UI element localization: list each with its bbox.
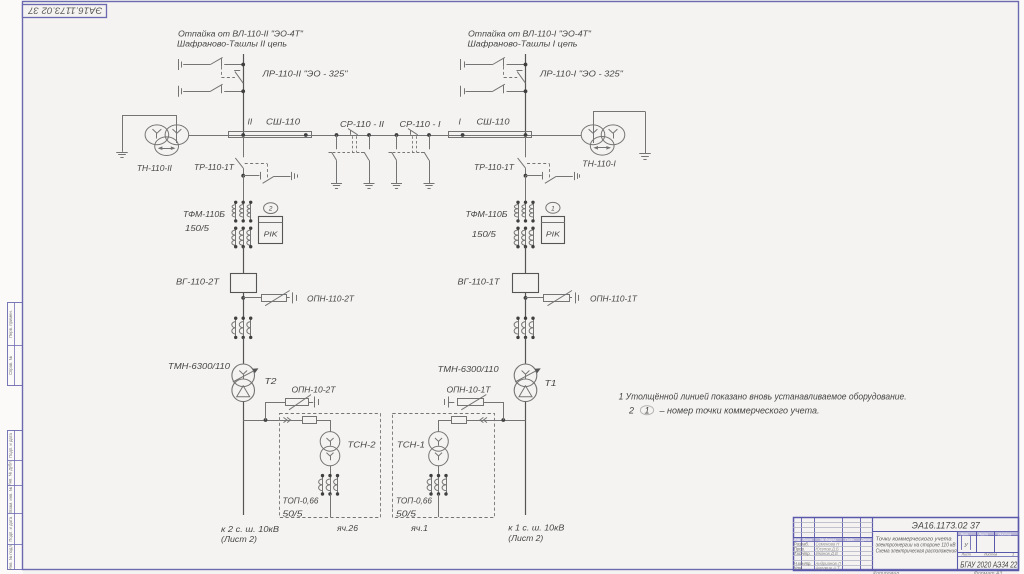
svg-text:Инв. № дубл.: Инв. № дубл.	[8, 460, 13, 486]
svg-text:Т.контр.: Т.контр.	[794, 551, 811, 556]
svg-text:Листов: Листов	[983, 553, 997, 557]
svg-text:1 Утолщённой линией показано: 1 Утолщённой линией показано вновь устан…	[619, 391, 907, 401]
svg-text:Листов: Листов	[997, 532, 1011, 536]
svg-text:Справ. №: Справ. №	[8, 356, 13, 376]
svg-text:PIK: PIK	[264, 230, 279, 239]
svg-text:ТОП-0,66: ТОП-0,66	[396, 496, 432, 506]
svg-text:к 2 с. ш. 10кВ: к 2 с. ш. 10кВ	[221, 524, 279, 534]
svg-text:1: 1	[1012, 553, 1014, 557]
svg-text:150/5: 150/5	[472, 229, 496, 239]
svg-text:яч.1: яч.1	[410, 523, 428, 533]
svg-text:Шафраново-Ташлы I цепь: Шафраново-Ташлы I цепь	[468, 39, 578, 48]
svg-text:Подп.: Подп.	[845, 538, 855, 542]
svg-text:Отпайка от ВЛ-110-I "ЭО-4Т": Отпайка от ВЛ-110-I "ЭО-4Т"	[468, 29, 592, 38]
svg-text:Иванов Д.В: Иванов Д.В	[816, 551, 839, 556]
svg-text:– номер точки коммерческого у: – номер точки коммерческого учета.	[658, 405, 819, 415]
svg-text:СР-110 - I: СР-110 - I	[400, 119, 442, 129]
svg-text:Дата: Дата	[860, 538, 870, 542]
svg-text:ТОП-0,66: ТОП-0,66	[283, 496, 319, 506]
svg-text:ТСН-2: ТСН-2	[348, 440, 376, 450]
svg-text:Лист: Лист	[961, 553, 971, 557]
svg-text:ТМН-6300/110: ТМН-6300/110	[438, 364, 499, 374]
svg-text:яч.26: яч.26	[336, 523, 358, 533]
svg-text:ОПН-10-1Т: ОПН-10-1Т	[447, 385, 492, 395]
svg-text:Схема электрическая расположен: Схема электрическая расположения	[876, 549, 957, 555]
svg-text:Лит.: Лит.	[960, 532, 969, 536]
svg-text:Утв.: Утв.	[794, 566, 804, 571]
svg-text:ЭА16.1173.02 37: ЭА16.1173.02 37	[27, 6, 102, 16]
svg-text:ВГ-110-2Т: ВГ-110-2Т	[176, 277, 220, 287]
svg-text:1: 1	[551, 205, 555, 212]
svg-text:(Лист 2): (Лист 2)	[508, 533, 543, 543]
svg-text:ВГ-110-1Т: ВГ-110-1Т	[458, 277, 501, 287]
svg-text:1: 1	[644, 405, 649, 415]
svg-text:II: II	[248, 117, 253, 127]
svg-text:Т2: Т2	[265, 376, 277, 386]
svg-text:ТМН-6300/110: ТМН-6300/110	[168, 361, 230, 371]
svg-text:Инв. № подл.: Инв. № подл.	[8, 544, 13, 570]
svg-text:ОПН-110-2Т: ОПН-110-2Т	[307, 294, 355, 304]
svg-text:ЭА16.1173.02 37: ЭА16.1173.02 37	[912, 520, 981, 530]
svg-text:ЛР-110-II "ЭО - 325": ЛР-110-II "ЭО - 325"	[261, 69, 348, 79]
svg-text:150/5: 150/5	[185, 223, 209, 233]
svg-text:ЛР-110-I "ЭО - 325": ЛР-110-I "ЭО - 325"	[539, 69, 624, 79]
svg-text:Т1: Т1	[545, 378, 557, 388]
svg-text:PIK: PIK	[546, 230, 561, 239]
svg-text:2: 2	[628, 405, 634, 415]
svg-text:ТФМ-110Б: ТФМ-110Б	[466, 209, 508, 219]
svg-text:ТР-110-1Т: ТР-110-1Т	[194, 162, 235, 172]
svg-text:Перв. примен.: Перв. примен.	[8, 310, 13, 338]
svg-text:ТФМ-110Б: ТФМ-110Б	[183, 209, 225, 219]
svg-text:БГАУ 2020 АЭ34 22: БГАУ 2020 АЭ34 22	[960, 560, 1018, 569]
svg-text:ТН-110-I: ТН-110-I	[582, 158, 616, 168]
svg-text:ТН-110-II: ТН-110-II	[137, 163, 173, 173]
svg-text:2: 2	[268, 206, 273, 213]
svg-text:ТР-110-1Т: ТР-110-1Т	[474, 162, 515, 172]
svg-text:Шафраново-Ташлы II цепь: Шафраново-Ташлы II цепь	[177, 39, 287, 48]
svg-text:Лист: Лист	[978, 532, 988, 536]
svg-text:Подп. и дата: Подп. и дата	[8, 516, 13, 541]
svg-text:СР-110 - II: СР-110 - II	[340, 119, 385, 129]
svg-text:Отпайка от ВЛ-110-II "ЭО-4Т": Отпайка от ВЛ-110-II "ЭО-4Т"	[178, 29, 304, 38]
svg-text:Подп. и дата: Подп. и дата	[8, 432, 13, 457]
svg-text:СШ-110: СШ-110	[477, 117, 510, 127]
svg-text:ТСН-1: ТСН-1	[397, 440, 425, 450]
svg-text:(Лист 2): (Лист 2)	[221, 534, 257, 544]
svg-text:50/5: 50/5	[396, 509, 416, 519]
svg-text:Аккужин А.Т: Аккужин А.Т	[815, 566, 841, 571]
svg-text:50/5: 50/5	[283, 509, 303, 519]
svg-text:к 1 с. ш. 10кВ: к 1 с. ш. 10кВ	[508, 523, 564, 533]
svg-text:СШ-110: СШ-110	[266, 117, 300, 127]
svg-text:Взам. инв. №: Взам. инв. №	[8, 486, 13, 512]
svg-text:ОПН-110-1Т: ОПН-110-1Т	[590, 294, 638, 304]
svg-text:ОПН-10-2Т: ОПН-10-2Т	[292, 385, 337, 395]
